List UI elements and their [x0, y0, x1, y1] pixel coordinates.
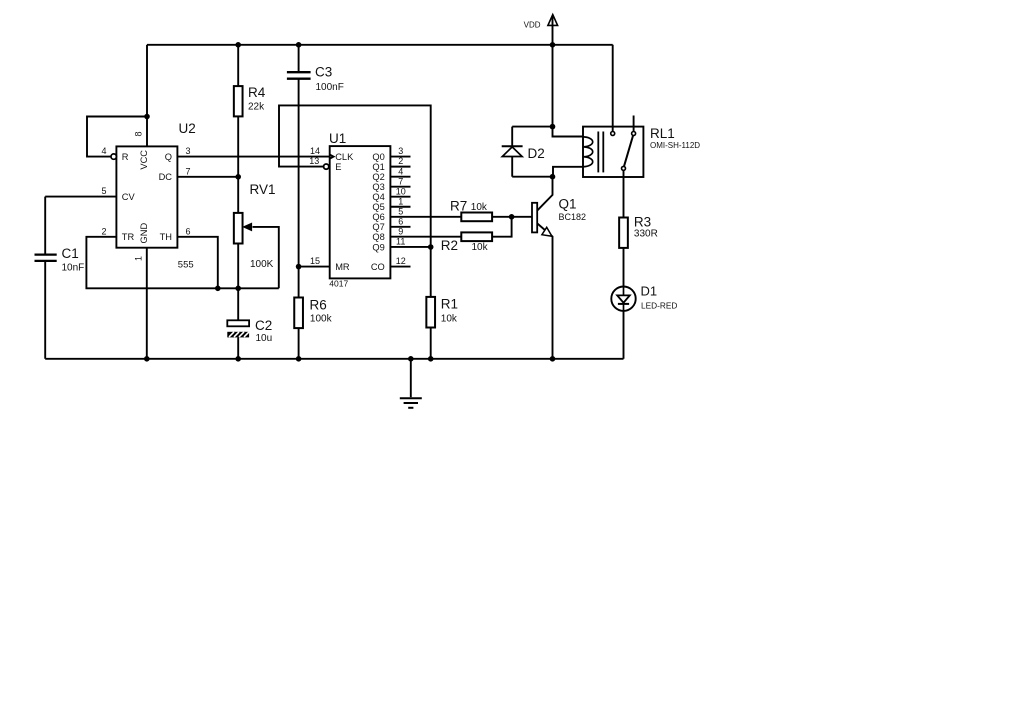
U1 pin Q7 stub (pin 6) — [390, 226, 410, 228]
label C3 — [315, 65, 332, 80]
label U2 — [179, 121, 196, 136]
svg-text:10u: 10u — [256, 333, 273, 344]
U1 pin name Q8 — [372, 232, 384, 242]
wire U2 CV left — [45, 196, 116, 198]
wire R4 to RV1 — [237, 116, 239, 212]
wire C1 top lead — [44, 197, 46, 255]
svg-text:5: 5 — [398, 206, 403, 216]
svg-text:R7: R7 — [450, 199, 467, 214]
U2 pin 4 bubble (R) — [111, 154, 116, 159]
label RL1 — [650, 126, 675, 141]
wire U1 Q9 (pin 11) to net — [390, 246, 430, 248]
wire R6 bottom lead — [298, 328, 300, 359]
svg-text:CO: CO — [371, 262, 385, 272]
svg-text:10nF: 10nF — [62, 263, 85, 274]
svg-text:100K: 100K — [250, 259, 274, 270]
label C2 value 10u — [256, 333, 273, 344]
label R2 — [441, 238, 458, 253]
svg-text:D2: D2 — [528, 146, 545, 161]
U1 pin name Q1 — [372, 162, 384, 172]
svg-text:2: 2 — [398, 156, 403, 166]
diode D2 triangle — [502, 147, 522, 157]
node DC-R4 junction — [235, 174, 241, 180]
svg-text:4: 4 — [101, 146, 106, 156]
wire U2 GND drop — [146, 248, 148, 359]
svg-text:R: R — [122, 152, 129, 162]
op-amp U2 555 body — [116, 146, 177, 247]
label C1 — [62, 246, 79, 261]
node C2-rail junction — [235, 356, 241, 362]
wire C1 bottom lead — [44, 261, 46, 359]
svg-text:U2: U2 — [179, 121, 196, 136]
capacitor C3 plate 1 — [287, 71, 311, 73]
U1 pin Q5 stub (pin 1) — [390, 206, 410, 208]
node C3 top junction — [296, 42, 302, 48]
U1 pin name CLK — [335, 152, 354, 162]
svg-text:Q8: Q8 — [372, 232, 384, 242]
wire relay coil bottom to Q1 — [553, 167, 583, 177]
U1 pin number 2 — [398, 156, 403, 166]
wire MR to U1 — [299, 266, 330, 268]
label RV1 — [250, 182, 276, 197]
label U1 value 4017 — [329, 279, 348, 289]
svg-text:OMI-SH-112D: OMI-SH-112D — [650, 141, 700, 150]
U1 pin CO stub (pin 12) — [390, 266, 410, 268]
wire R2 up to base node — [492, 217, 512, 237]
capacitor C3 plate 2 — [287, 78, 311, 80]
svg-text:TH: TH — [160, 232, 172, 242]
U1 CLK edge triangle — [330, 155, 334, 159]
label RL1 value OMI-SH-112D — [650, 141, 700, 150]
svg-text:Q1: Q1 — [559, 197, 577, 212]
U2 pin number 4 — [101, 146, 106, 156]
svg-text:R3: R3 — [634, 215, 651, 230]
label U1 — [329, 131, 346, 146]
wire U2 TR loop — [86, 237, 278, 288]
U1 pin number 10 — [396, 186, 406, 196]
resistor R4 — [234, 86, 243, 116]
svg-text:5: 5 — [101, 186, 106, 196]
wire VDD drop to relay coil — [553, 45, 584, 137]
svg-text:3: 3 — [185, 146, 190, 156]
label C3 value 100nF — [316, 82, 344, 93]
U1 pin Q4 stub (pin 10) — [390, 196, 410, 198]
resistor R1 — [426, 297, 435, 328]
svg-text:C2: C2 — [255, 318, 272, 333]
U1 pin name Q4 — [372, 192, 384, 202]
svg-text:1: 1 — [398, 196, 403, 206]
node TR-RV1 junction — [235, 286, 241, 292]
U1 pin name CO — [371, 262, 385, 272]
U1 pin number 1 — [398, 196, 403, 206]
transistor Q1 emitter — [537, 223, 552, 358]
svg-text:BC182: BC182 — [559, 212, 587, 222]
label C2 — [255, 318, 272, 333]
svg-text:3: 3 — [398, 146, 403, 156]
wire VDD top rail — [147, 44, 613, 46]
svg-text:Q5: Q5 — [372, 202, 384, 212]
U1 pin name Q2 — [372, 172, 384, 182]
capacitor C2 negative plate — [227, 332, 249, 338]
relay RL1 switch blade — [624, 135, 633, 166]
svg-text:6: 6 — [398, 216, 403, 226]
U1 pin name Q5 — [372, 202, 384, 212]
svg-text:Q4: Q4 — [372, 192, 384, 202]
wire ground stub — [410, 359, 412, 397]
wire left VCC drop — [146, 45, 148, 147]
svg-text:MR: MR — [335, 262, 350, 272]
U1 pin name Q0 — [372, 152, 384, 162]
relay RL1 switched pin — [622, 166, 626, 170]
svg-text:R6: R6 — [310, 297, 327, 312]
U1 pin number 14 — [310, 146, 320, 156]
label R4 — [248, 85, 266, 100]
U2 pin number 1 — [134, 256, 144, 261]
label R1 value 10k — [441, 314, 458, 325]
U2 pin name DC — [159, 172, 173, 182]
transistor Q1 collector — [537, 177, 552, 211]
svg-text:10k: 10k — [472, 242, 489, 253]
wire U2 DC to R4 — [177, 176, 238, 178]
label RV1 value 100K — [250, 259, 274, 270]
svg-text:U1: U1 — [329, 131, 346, 146]
U2 pin name TH — [160, 232, 172, 242]
svg-text:CLK: CLK — [335, 152, 354, 162]
svg-text:R1: R1 — [441, 297, 458, 312]
svg-text:7: 7 — [185, 166, 190, 176]
wire ground rail — [45, 358, 623, 360]
svg-text:CV: CV — [122, 192, 136, 202]
wire U2 Q output to U1 CLK — [177, 156, 329, 158]
svg-text:Q7: Q7 — [372, 222, 384, 232]
svg-text:GND: GND — [139, 222, 149, 243]
label R7 value 10k — [471, 202, 488, 213]
node Q1 emitter rail junction — [550, 356, 556, 362]
U1 pin name Q9 — [372, 242, 384, 252]
svg-text:1: 1 — [134, 256, 144, 261]
U2 pin name VCC — [139, 150, 149, 170]
node MR junction — [296, 264, 302, 270]
wire RV1 wiper loop — [253, 227, 279, 288]
svg-text:Q9: Q9 — [372, 242, 384, 252]
U1 pin name Q7 — [372, 222, 384, 232]
svg-text:R4: R4 — [248, 85, 266, 100]
U1 pin Q1 stub (pin 2) — [390, 166, 410, 168]
wire D2 cathode lead — [511, 127, 513, 147]
svg-text:LED-RED: LED-RED — [641, 300, 677, 310]
wire U2 TH drop — [177, 237, 217, 288]
resistor R3 — [619, 218, 628, 248]
U2 pin number 3 — [185, 146, 190, 156]
U1 pin number 5 — [398, 206, 403, 216]
U2 pin name Q — [165, 152, 172, 162]
wire U1 Q6 (pin 5) to R7 — [390, 216, 461, 218]
wire U1 Q8 (pin 9) to R2 — [390, 236, 461, 238]
svg-text:22k: 22k — [248, 102, 265, 113]
label D1 — [641, 284, 658, 299]
svg-text:10: 10 — [396, 186, 406, 196]
node D2 top junction — [550, 124, 556, 130]
U2 pin name R — [122, 152, 129, 162]
relay RL1 NO pin — [632, 132, 636, 136]
label R7 — [450, 199, 467, 214]
label D2 — [528, 146, 545, 161]
wire R7 to base node — [492, 216, 512, 218]
U1 pin name MR — [335, 262, 350, 272]
relay RL1 core line 1 — [597, 132, 599, 173]
resistor R6 — [294, 298, 303, 329]
wire C2 bottom lead — [237, 337, 239, 358]
svg-text:15: 15 — [310, 256, 320, 266]
diode D1 LED body — [611, 287, 635, 311]
resistor R7 — [461, 213, 492, 222]
U2 pin number 8 — [134, 131, 144, 136]
wire RV1 to C2 — [237, 244, 239, 321]
svg-text:100k: 100k — [310, 314, 333, 325]
U1 pin number 11 — [396, 236, 405, 246]
potentiometer RV1 body — [234, 213, 243, 244]
label VDD — [524, 21, 541, 30]
U1 pin Q3 stub (pin 7) — [390, 186, 410, 188]
svg-text:Q: Q — [165, 152, 172, 162]
svg-text:8: 8 — [134, 131, 144, 136]
wire D2 anode lead — [511, 157, 513, 177]
label R6 value 100k — [310, 314, 333, 325]
svg-text:9: 9 — [398, 226, 403, 236]
label U2 value 555 — [178, 259, 194, 270]
resistor R2 — [461, 232, 492, 241]
U1 pin name Q3 — [372, 182, 384, 192]
node Q9 junction — [428, 244, 434, 250]
wire U1 E to Q9 loop — [279, 105, 431, 297]
svg-text:14: 14 — [310, 146, 320, 156]
svg-text:E: E — [335, 162, 341, 172]
node Q1 base junction — [509, 214, 515, 220]
U2 pin number 6 — [185, 226, 190, 236]
svg-text:4: 4 — [398, 166, 403, 176]
diode D1 triangle — [617, 295, 630, 302]
ground symbol — [400, 398, 422, 408]
svg-text:6: 6 — [185, 226, 190, 236]
U2 pin number 5 — [101, 186, 106, 196]
node ground stub junction — [408, 356, 414, 362]
svg-text:Q3: Q3 — [372, 182, 384, 192]
U1 pin Q0 stub (pin 3) — [390, 156, 410, 158]
label R1 — [441, 297, 458, 312]
relay RL1 common pin — [611, 132, 615, 136]
U2 pin number 7 — [185, 166, 190, 176]
wire U2 reset loop — [87, 117, 147, 157]
U1 pin number 13 — [309, 156, 319, 166]
svg-text:4017: 4017 — [329, 279, 348, 289]
svg-text:Q2: Q2 — [372, 172, 384, 182]
node R6-rail junction — [296, 356, 302, 362]
svg-text:10k: 10k — [441, 314, 458, 325]
label Q1 — [559, 197, 577, 212]
wire R4 top lead — [237, 45, 239, 86]
node GND-rail junction — [144, 356, 150, 362]
svg-text:DC: DC — [159, 172, 173, 182]
svg-text:RL1: RL1 — [650, 126, 675, 141]
U1 pin Q2 stub (pin 4) — [390, 176, 410, 178]
U1 pin number 6 — [398, 216, 403, 226]
svg-text:Q1: Q1 — [372, 162, 384, 172]
svg-text:11: 11 — [396, 236, 405, 246]
node VDD rail junction — [550, 42, 556, 48]
U1 pin 13 bubble (E) — [324, 164, 329, 169]
svg-text:R2: R2 — [441, 238, 458, 253]
capacitor C1 plate 1 — [35, 254, 57, 256]
node VCC-R junction — [144, 114, 150, 120]
svg-text:RV1: RV1 — [250, 182, 276, 197]
label R3 value 330R — [634, 229, 658, 240]
label D1 value LED-RED — [641, 300, 677, 310]
U1 pin number 4 — [398, 166, 403, 176]
relay RL1 core line 2 — [602, 132, 604, 173]
svg-text:330R: 330R — [634, 229, 658, 240]
U2 pin number 2 — [101, 226, 106, 236]
counter U1 4017 body — [330, 146, 391, 278]
svg-text:100nF: 100nF — [316, 82, 344, 93]
relay RL1 body — [583, 127, 643, 177]
svg-text:Q6: Q6 — [372, 212, 384, 222]
wire D2 bottom — [512, 176, 552, 178]
svg-text:7: 7 — [398, 176, 403, 186]
wire C3 top lead — [298, 45, 300, 72]
node R4 top junction — [235, 42, 241, 48]
svg-text:VCC: VCC — [139, 150, 149, 170]
svg-text:555: 555 — [178, 259, 194, 270]
U2 pin name TR — [122, 232, 135, 242]
U1 pin number 7 — [398, 176, 403, 186]
node TR-TH junction — [215, 286, 221, 292]
label C1 value 10nF — [62, 263, 85, 274]
power VDD symbol — [548, 15, 558, 45]
label R6 — [310, 297, 327, 312]
wire R3 to D1 — [623, 248, 625, 287]
wire D1 internal leads — [623, 287, 625, 311]
svg-text:13: 13 — [309, 156, 319, 166]
U2 pin name GND — [139, 222, 149, 243]
U2 pin name CV — [122, 192, 136, 202]
svg-text:C3: C3 — [315, 65, 332, 80]
U1 pin name Q6 — [372, 212, 384, 222]
label Q1 value BC182 — [559, 212, 587, 222]
label R4 value 22k — [248, 102, 265, 113]
diode D1 cathode bar — [618, 303, 629, 305]
wire C3 to R6 — [298, 79, 300, 298]
node R1-rail junction — [428, 356, 434, 362]
relay RL1 NO contact stub — [633, 116, 635, 132]
svg-text:10k: 10k — [471, 202, 488, 213]
label R2 value 10k — [472, 242, 489, 253]
svg-text:2: 2 — [101, 226, 106, 236]
wire base node to Q1 — [512, 216, 532, 218]
U1 pin number 12 — [396, 256, 406, 266]
node D2 bottom junction — [550, 174, 556, 180]
wire D2 top — [512, 126, 552, 128]
svg-text:12: 12 — [396, 256, 406, 266]
transistor Q1 emitter arrow — [542, 227, 552, 236]
label R3 — [634, 215, 651, 230]
wire top rail drop to relay — [612, 45, 614, 132]
transistor Q1 base bar — [532, 203, 537, 233]
U1 pin number 3 — [398, 146, 403, 156]
relay RL1 coil — [583, 137, 593, 167]
wire R1 bottom lead — [430, 328, 432, 359]
U1 pin number 15 — [310, 256, 320, 266]
wire D1 to ground rail — [623, 311, 625, 359]
wire relay to R3 — [623, 170, 625, 217]
svg-text:C1: C1 — [62, 246, 79, 261]
capacitor C1 plate 2 — [35, 260, 57, 262]
diode D2 cathode bar — [502, 145, 523, 147]
svg-text:D1: D1 — [641, 284, 658, 299]
U1 pin name E — [335, 162, 341, 172]
capacitor C2 positive plate — [227, 320, 249, 326]
svg-text:Q0: Q0 — [372, 152, 384, 162]
svg-text:VDD: VDD — [524, 21, 541, 30]
potentiometer RV1 wiper arrow — [244, 223, 252, 230]
U1 pin number 9 — [398, 226, 403, 236]
svg-text:TR: TR — [122, 232, 135, 242]
